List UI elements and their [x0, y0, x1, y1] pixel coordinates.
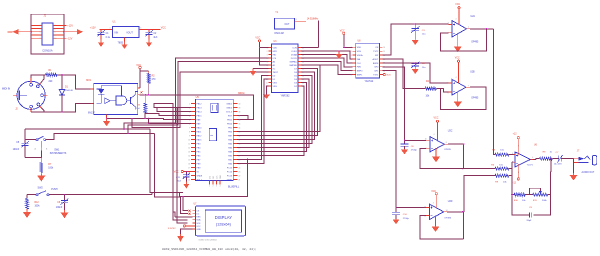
svg-text:8: 8 — [296, 19, 297, 21]
switch SW2 PUSH — [36, 186, 58, 195]
svg-text:2700p: 2700p — [403, 218, 410, 220]
svg-text:8: 8 — [267, 72, 268, 74]
capacitor C4 10u — [411, 62, 426, 69]
svg-text:8: 8 — [54, 35, 55, 37]
wire feedback — [462, 211, 463, 213]
wire feedback — [441, 29, 487, 51]
svg-text:PC15: PC15 — [227, 167, 233, 169]
wire — [301, 62, 352, 71]
wire — [145, 114, 191, 119]
wire feedback — [441, 87, 487, 109]
wire — [344, 34, 353, 47]
wire — [155, 134, 181, 198]
ground — [435, 148, 437, 157]
svg-text:14: 14 — [188, 155, 190, 157]
pin stub — [138, 94, 140, 96]
svg-text:24: 24 — [239, 167, 241, 169]
wire to R6 — [464, 168, 495, 170]
wire — [509, 154, 514, 156]
capacitor C2 3u3 — [145, 29, 158, 40]
svg-text:1N4148: 1N4148 — [65, 90, 73, 92]
wire — [301, 58, 352, 67]
svg-text:U2C: U2C — [448, 131, 453, 133]
wire — [509, 175, 512, 177]
wire — [100, 28, 113, 30]
capacitor C5 100nF — [13, 139, 29, 158]
ground — [573, 173, 575, 175]
trimmer R11 200k — [529, 188, 547, 202]
svg-text:OP495: OP495 — [471, 41, 479, 43]
wire — [301, 55, 352, 63]
pin stub — [426, 207, 430, 209]
svg-text:OUT: OUT — [285, 24, 290, 26]
pin stub — [426, 139, 430, 141]
sound chip U3 YMF262 — [266, 41, 304, 97]
svg-text:16: 16 — [188, 163, 190, 165]
capacitor C8 2700p — [401, 140, 418, 152]
ground — [180, 234, 182, 236]
svg-text:1: 1 — [110, 28, 111, 30]
svg-text:6: 6 — [448, 92, 449, 94]
wire — [128, 62, 268, 134]
pin stub — [44, 94, 48, 96]
svg-text:SMPBD: SMPBD — [289, 65, 297, 67]
wire — [180, 191, 184, 193]
connector J1 CON10A — [31, 14, 65, 54]
svg-text:YAC512: YAC512 — [365, 80, 374, 83]
svg-text:6: 6 — [532, 157, 533, 159]
op-amp U2C OP495 — [425, 131, 453, 152]
svg-text:36: 36 — [239, 119, 241, 121]
wire — [140, 70, 149, 72]
ground — [148, 40, 150, 43]
pin stub — [514, 154, 516, 156]
svg-text:4: 4 — [433, 202, 434, 204]
wire — [155, 196, 181, 198]
op-amp U2D OP495 — [424, 201, 453, 220]
svg-text:stm: stm — [210, 134, 213, 137]
svg-text:VDD: VDD — [273, 47, 278, 49]
wire data bus bit 3 — [237, 76, 312, 144]
capacitor C1 0.1u — [97, 29, 111, 39]
ground — [64, 210, 66, 212]
wire — [46, 134, 155, 140]
ground — [435, 216, 437, 227]
wire — [124, 58, 268, 129]
ground — [100, 40, 102, 43]
svg-text:0.1u: 0.1u — [106, 37, 111, 39]
svg-text:VCC: VCC — [455, 4, 460, 6]
wire — [383, 59, 426, 89]
svg-text:VBAT: VBAT — [227, 178, 233, 181]
svg-text:-12V: -12V — [67, 38, 72, 41]
microcontroller U5 BLUEPILL — [188, 96, 240, 188]
wire feedback — [420, 148, 464, 168]
svg-text:5: 5 — [267, 61, 268, 63]
wire — [183, 159, 248, 197]
svg-text:37: 37 — [239, 115, 241, 117]
capacitor C7 10u 25V — [554, 152, 563, 165]
wire GND — [181, 229, 193, 234]
net VDD — [383, 74, 385, 76]
svg-text:VSS: VSS — [273, 86, 278, 88]
supply wire — [458, 9, 460, 25]
pin stub — [13, 94, 18, 96]
capacitor C6 100nF — [56, 195, 69, 212]
svg-text:VCC: VCC — [196, 226, 201, 228]
wire — [534, 159, 537, 161]
svg-text:3V3_1: 3V3_1 — [197, 179, 204, 181]
svg-text:CN: CN — [375, 47, 379, 49]
svg-text:10: 10 — [188, 139, 190, 141]
svg-text:YMF262: YMF262 — [280, 94, 290, 97]
svg-text:1: 1 — [189, 103, 190, 105]
pin stub — [449, 24, 453, 26]
svg-text:4: 4 — [54, 28, 55, 30]
svg-text:3V3: 3V3 — [209, 176, 211, 179]
net 14.318MHz wire — [297, 20, 306, 22]
ground — [267, 86, 269, 94]
resistor R9 10k — [495, 174, 509, 183]
wire — [301, 47, 318, 49]
svg-text:PUSH: PUSH — [51, 189, 58, 191]
resistor R5 10k — [492, 149, 508, 156]
wire — [383, 24, 449, 55]
svg-text:CLKI: CLKI — [292, 47, 297, 49]
svg-text:+12V: +12V — [90, 26, 96, 29]
svg-text:SMP0: SMP0 — [357, 71, 364, 73]
wire — [383, 71, 426, 208]
pin stub — [39, 83, 41, 85]
svg-text:OSC14M: OSC14M — [274, 33, 284, 35]
no-connect x — [188, 213, 190, 215]
svg-text:100nF: 100nF — [56, 207, 63, 209]
svg-text:VOUT: VOUT — [126, 31, 133, 34]
svg-text:VCC: VCC — [434, 118, 439, 120]
wire — [237, 116, 248, 120]
svg-text:MIDI IN: MIDI IN — [2, 88, 10, 91]
no-connect x — [188, 210, 190, 212]
svg-text:BWIN: BWIN — [373, 63, 379, 65]
svg-text:17: 17 — [188, 167, 190, 169]
ground — [414, 68, 416, 71]
svg-text:1: 1 — [468, 26, 469, 28]
pin stub — [295, 20, 298, 22]
capacitor C11 3u3 and VCC — [174, 170, 191, 182]
svg-text:7: 7 — [351, 71, 352, 73]
svg-text:7: 7 — [40, 35, 41, 37]
connector J2 MIDI IN — [2, 81, 45, 110]
ground — [457, 34, 459, 47]
svg-text:39: 39 — [239, 107, 241, 109]
svg-text:38: 38 — [239, 111, 241, 113]
svg-text:13: 13 — [188, 151, 190, 153]
svg-text:21: 21 — [239, 179, 241, 181]
wire — [41, 75, 45, 83]
wire output drop to R5 — [494, 29, 495, 155]
svg-text:4: 4 — [456, 77, 457, 79]
svg-text:20: 20 — [188, 179, 190, 181]
wire — [40, 151, 42, 158]
svg-text:/RD: /RD — [273, 54, 277, 56]
svg-text:GND2: GND2 — [226, 107, 233, 109]
svg-text:4: 4 — [267, 58, 268, 60]
svg-text:DAI: DAI — [357, 58, 361, 61]
net -12V — [53, 37, 67, 39]
wire — [383, 63, 449, 83]
diode D1 1N4148 — [59, 74, 73, 113]
svg-text:16: 16 — [383, 47, 385, 49]
svg-text:6: 6 — [351, 67, 352, 69]
oscillator Y1 OSC14M — [274, 12, 296, 35]
svg-text:PC14: PC14 — [227, 171, 233, 173]
wire — [260, 42, 269, 65]
wire — [151, 192, 153, 194]
svg-text:SMP1: SMP1 — [357, 74, 364, 76]
pin stub — [30, 78, 32, 83]
pin stub — [91, 102, 94, 104]
svg-text:PB11: PB11 — [227, 119, 233, 121]
wire — [57, 75, 94, 89]
op-amp U6 TL071 — [512, 145, 538, 174]
supply wire — [517, 139, 519, 156]
wire — [383, 67, 426, 141]
svg-text:OLED 0.96 128X64: OLED 0.96 128X64 — [199, 240, 218, 242]
wire feedback box — [512, 194, 514, 196]
svg-text:2: 2 — [351, 51, 352, 53]
svg-text:/CS: /CS — [273, 58, 277, 60]
wire — [149, 118, 191, 123]
wire data bus bit 2 — [237, 72, 315, 139]
svg-text:6: 6 — [54, 32, 55, 34]
wire — [49, 194, 152, 196]
wire — [573, 159, 575, 174]
jack J7 AUDIO OUT — [574, 150, 597, 174]
optocoupler ISO1 6N137 — [86, 80, 138, 115]
supply wire — [517, 164, 519, 178]
capacitor C10 2700p — [392, 207, 410, 220]
svg-text:PB12: PB12 — [197, 103, 203, 105]
regulator U1 7805 — [110, 20, 142, 44]
svg-text:100k: 100k — [35, 206, 41, 208]
ground — [185, 182, 187, 185]
wire data bus bit 5 — [237, 83, 307, 152]
svg-text:INSTRUMENTS: INSTRUMENTS — [50, 153, 67, 155]
svg-text:CON10A: CON10A — [42, 49, 53, 53]
svg-text:23: 23 — [239, 171, 241, 173]
wire — [19, 31, 32, 33]
svg-text:2: 2 — [512, 163, 513, 165]
resistor R1 220 — [46, 70, 57, 83]
wire data D1 — [237, 79, 268, 163]
display U7 OLED 128x64 — [192, 203, 245, 241]
switch SW1 INSTRUMENTS — [35, 136, 67, 155]
svg-text:SW1: SW1 — [54, 148, 60, 151]
svg-text:7: 7 — [189, 127, 190, 129]
svg-text:PB14: PB14 — [197, 111, 203, 113]
svg-text:AOUT: AOUT — [373, 58, 380, 61]
svg-text:9: 9 — [189, 135, 190, 137]
svg-text:9: 9 — [40, 38, 41, 40]
svg-text:1: 1 — [40, 25, 41, 27]
svg-text:VIN: VIN — [114, 31, 118, 34]
wire — [31, 75, 45, 78]
svg-text:3.3V/5V: 3.3V/5V — [168, 228, 176, 230]
wire data bus bit 4 — [237, 79, 309, 147]
svg-text:TST1: TST1 — [373, 74, 379, 76]
svg-text:U2D: U2D — [448, 201, 453, 203]
pin stub — [40, 147, 42, 150]
resistor R6 10k — [491, 164, 508, 170]
off-page arrow right — [77, 29, 83, 35]
wire — [25, 129, 36, 140]
svg-text:CLKO: CLKO — [291, 51, 297, 53]
svg-text:11: 11 — [266, 82, 268, 84]
wire inverting node — [511, 162, 513, 195]
svg-text:TST2: TST2 — [373, 51, 379, 53]
svg-text:12: 12 — [188, 147, 190, 149]
ground — [253, 68, 268, 70]
op-amp U2A OP495 — [448, 15, 479, 43]
svg-text:6N137: 6N137 — [88, 113, 95, 115]
wire — [132, 72, 268, 128]
svg-text:5: 5 — [40, 32, 41, 34]
svg-text:3: 3 — [351, 55, 352, 57]
wire — [550, 159, 552, 172]
op-amp U2B OP495 — [448, 72, 479, 100]
svg-text:40: 40 — [239, 103, 241, 105]
wire — [548, 194, 551, 196]
wire — [301, 65, 352, 75]
svg-text:VSS: VSS — [273, 82, 278, 84]
svg-text:3: 3 — [40, 28, 41, 30]
supply wire — [458, 62, 460, 83]
svg-text:DISPLAY: DISPLAY — [215, 215, 233, 220]
svg-text:4: 4 — [434, 134, 435, 136]
svg-text:TEST: TEST — [273, 72, 279, 74]
svg-text:VCC: VCC — [455, 57, 460, 59]
svg-text:2700p: 2700p — [411, 149, 418, 151]
ground — [106, 118, 108, 121]
svg-text:PC13: PC13 — [227, 175, 233, 177]
svg-text:PA12: PA12 — [197, 134, 203, 137]
svg-text:PB13: PB13 — [197, 107, 203, 109]
wire output — [448, 144, 464, 168]
resistor R8 1k — [540, 152, 553, 161]
svg-text:2: 2 — [267, 51, 268, 53]
svg-text:15: 15 — [188, 159, 190, 161]
svg-text:VCC: VCC — [174, 171, 179, 173]
svg-text:4: 4 — [456, 19, 457, 21]
wire — [139, 69, 141, 88]
svg-text:GND8: GND8 — [197, 175, 204, 177]
resistor R7 100k — [40, 158, 54, 176]
wire — [150, 129, 179, 192]
svg-text:OP495: OP495 — [471, 98, 479, 100]
svg-text:VCC: VCC — [161, 26, 166, 29]
svg-text:U8X8_SSD1306_128X64_VCOMH0_HW_: U8X8_SSD1306_128X64_VCOMH0_HW_I2C u8x8(4… — [162, 247, 257, 251]
svg-text:U2A: U2A — [471, 15, 476, 18]
supply wire — [435, 195, 437, 208]
svg-text:/WR: /WR — [273, 51, 278, 53]
svg-text:VCC: VCC — [255, 37, 260, 39]
svg-text:GND1: GND1 — [226, 103, 233, 105]
svg-text:DOAB: DOAB — [291, 53, 298, 56]
svg-text:35: 35 — [239, 123, 241, 125]
svg-text:TL071: TL071 — [527, 164, 534, 166]
svg-text:(128x64): (128x64) — [216, 223, 232, 227]
svg-text:R12: R12 — [35, 202, 40, 204]
wire — [180, 192, 184, 196]
wire — [139, 28, 160, 30]
resistor R4 10k — [425, 81, 436, 97]
no-connect x — [140, 91, 142, 93]
wire — [181, 197, 189, 214]
svg-text:DOCD: DOCD — [291, 58, 298, 60]
ground — [338, 50, 340, 52]
svg-text:4: 4 — [351, 59, 352, 61]
svg-text:7805: 7805 — [118, 41, 124, 44]
wire — [157, 107, 191, 222]
wire — [436, 88, 443, 90]
svg-text:+12V: +12V — [67, 25, 73, 28]
wire — [154, 103, 191, 220]
wire — [301, 47, 318, 49]
svg-text:14.318MHz: 14.318MHz — [307, 18, 319, 20]
resistor R2 270 — [147, 71, 156, 95]
svg-text:PA15: PA15 — [197, 138, 203, 141]
svg-text:BLUEPILL: BLUEPILL — [228, 185, 240, 188]
net +12V — [53, 24, 67, 26]
wire output — [447, 211, 464, 213]
wire — [25, 128, 150, 130]
pin stub — [30, 108, 32, 112]
wire data D0 — [237, 76, 268, 160]
svg-text:22: 22 — [239, 175, 241, 177]
svg-text:11: 11 — [188, 143, 190, 145]
ground — [404, 148, 406, 150]
svg-text:3: 3 — [448, 22, 449, 24]
wire MIDIin net — [139, 94, 249, 96]
wire — [301, 51, 352, 59]
svg-text:SMPAC: SMPAC — [290, 60, 298, 63]
svg-text:/IC: /IC — [273, 68, 276, 70]
ground — [457, 92, 459, 102]
pin stub — [91, 88, 94, 90]
svg-text:ISO1: ISO1 — [86, 80, 92, 82]
svg-text:SW2: SW2 — [38, 186, 44, 189]
svg-text:VDD: VDD — [357, 47, 362, 49]
svg-text:SDA: SDA — [196, 219, 201, 222]
pin stub — [138, 87, 140, 89]
svg-text:5: 5 — [448, 82, 449, 84]
capacitor C9 33pF — [526, 207, 532, 222]
svg-text:100nF: 100nF — [13, 149, 20, 151]
svg-text:3: 3 — [512, 153, 513, 155]
ground — [395, 218, 397, 220]
svg-text:3: 3 — [267, 54, 268, 56]
wire — [107, 117, 164, 119]
svg-text:VDDA: VDDA — [357, 54, 363, 57]
wire — [552, 158, 558, 160]
ground — [26, 210, 28, 212]
wire output — [470, 28, 494, 30]
svg-text:33pF: 33pF — [526, 220, 532, 222]
wire — [509, 168, 512, 170]
wire — [525, 194, 533, 196]
pin stub — [449, 82, 453, 84]
wire data bus bit 1 — [237, 69, 317, 136]
